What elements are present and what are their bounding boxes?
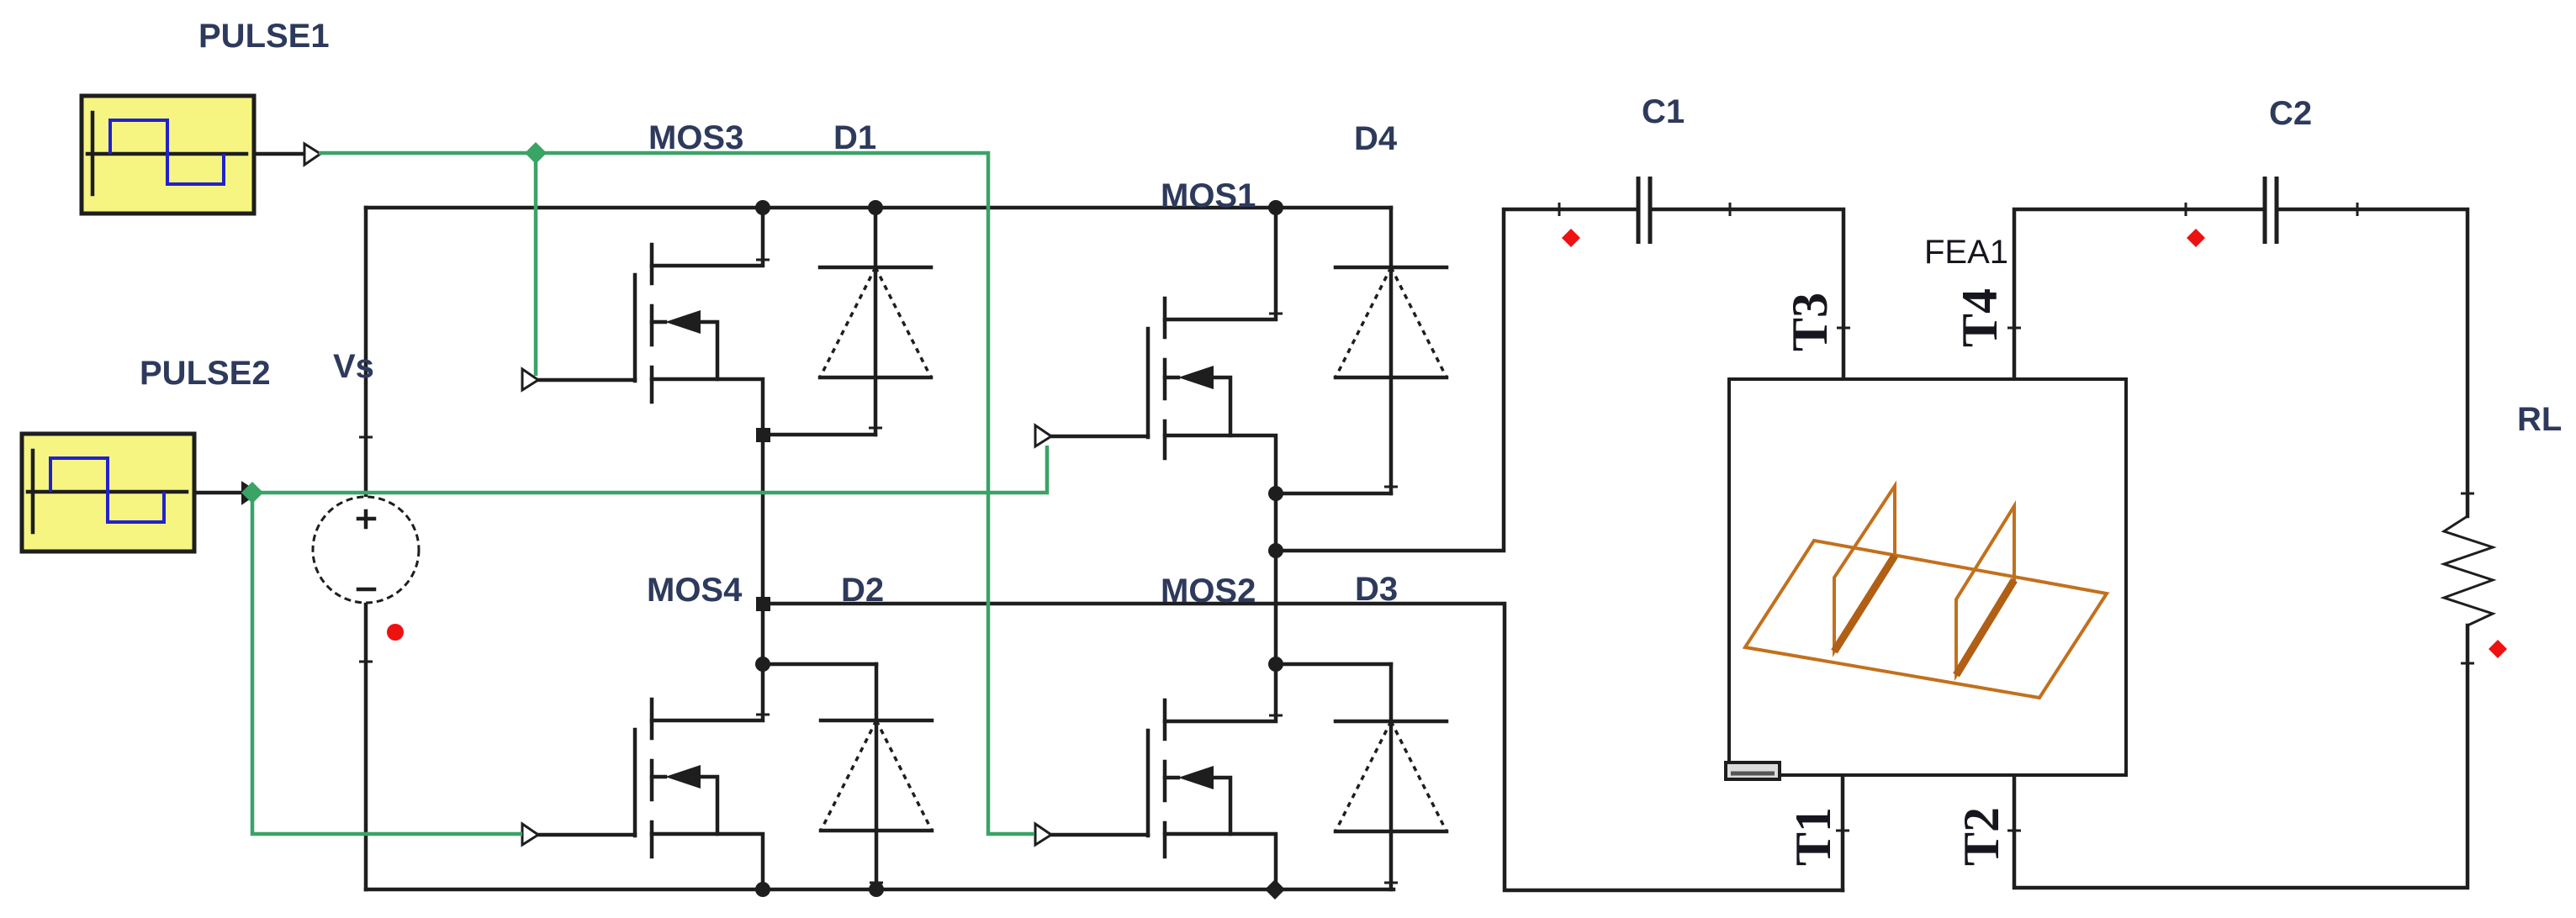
junction node on PULSE2 gate net bbox=[241, 482, 263, 504]
FEA1 block (finite-element piezo model) bbox=[1729, 379, 2126, 775]
svg-text:MOS3: MOS3 bbox=[648, 119, 743, 156]
node D2 anode on bottom rail bbox=[869, 882, 884, 897]
arrow on PULSE1 output bbox=[304, 144, 320, 165]
svg-text:RL: RL bbox=[2517, 401, 2562, 438]
svg-text:D2: D2 bbox=[841, 572, 884, 609]
diode D1 bbox=[820, 208, 931, 435]
wire left-leg midpoint vertical bbox=[761, 435, 765, 664]
svg-text:MOS2: MOS2 bbox=[1161, 572, 1256, 609]
svg-text:C1: C1 bbox=[1642, 93, 1685, 130]
diode D3 bbox=[1336, 664, 1447, 889]
svg-text:D1: D1 bbox=[833, 119, 876, 156]
transistor MOS1 (N-MOSFET) bbox=[1035, 208, 1283, 493]
wire node to D3 cathode bbox=[1276, 662, 1391, 667]
wire top DC rail bbox=[366, 206, 1391, 210]
node MOS2 drain / D3 cathode bbox=[1268, 657, 1283, 672]
wire left midpoint output to T1 bbox=[763, 604, 1843, 890]
wire gate net from PULSE1 (green) bbox=[319, 153, 1034, 834]
junction node on PULSE1 gate net bbox=[525, 142, 547, 164]
wire T4 riser to C2 bbox=[2014, 209, 2263, 379]
transistor MOS3 (N-MOSFET) bbox=[522, 208, 770, 435]
node MOS1 drain on top rail bbox=[1268, 200, 1283, 215]
wire C1 to T3 bbox=[1652, 209, 1843, 379]
FEA1 orange fin 2 bbox=[1956, 506, 2014, 675]
svg-text:C2: C2 bbox=[2269, 95, 2312, 132]
FEA1 orange base plate bbox=[1745, 541, 2107, 698]
resistor RL bbox=[2444, 516, 2493, 625]
svg-text:FEA1: FEA1 bbox=[1924, 234, 2008, 271]
voltage source Vs bbox=[313, 437, 419, 662]
svg-text:D4: D4 bbox=[1354, 120, 1398, 157]
wire T1 riser into FEA1 bbox=[1841, 775, 1845, 890]
node left midpoint to T1 bbox=[756, 597, 770, 611]
svg-text:T1: T1 bbox=[1785, 807, 1841, 866]
probe diamond near RL (red) bbox=[2489, 640, 2507, 658]
wire PULSE1 branch to MOS3 gate (green) bbox=[534, 153, 538, 376]
wire node to D1 anode bbox=[763, 433, 875, 437]
capacitor C2 bbox=[2265, 177, 2277, 244]
transistor MOS4 (N-MOSFET) bbox=[522, 664, 770, 889]
svg-text:Vs: Vs bbox=[333, 348, 374, 385]
svg-text:T2: T2 bbox=[1954, 807, 2009, 866]
node right midpoint to C1 bbox=[1268, 543, 1283, 558]
wire node to D2 cathode bbox=[763, 662, 876, 667]
FEA1 orange fin 1 bbox=[1834, 486, 1895, 652]
wire Vs top lead bbox=[364, 208, 368, 498]
wire PULSE1 output stub bbox=[254, 152, 304, 156]
wire RL bottom to T2 bbox=[2014, 625, 2468, 888]
node MOS2 source on bottom rail bbox=[1265, 879, 1285, 900]
pulse source PULSE1 (square-wave source block) bbox=[82, 96, 254, 214]
node MOS4 source on bottom rail bbox=[755, 882, 770, 897]
FEA1 version badge bbox=[1726, 762, 1780, 779]
transistor MOS2 (N-MOSFET) bbox=[1035, 664, 1283, 889]
svg-text:PULSE1: PULSE1 bbox=[198, 18, 330, 55]
probe diamond near C2 (red) bbox=[2187, 229, 2205, 247]
node MOS4 drain / D2 cathode bbox=[755, 657, 770, 672]
arrow on PULSE2 output bbox=[242, 483, 258, 504]
node MOS3 drain on top rail bbox=[755, 200, 770, 215]
svg-text:PULSE2: PULSE2 bbox=[140, 355, 271, 392]
svg-text:MOS4: MOS4 bbox=[647, 572, 743, 609]
diode D4 bbox=[1336, 208, 1447, 493]
svg-text:MOS1: MOS1 bbox=[1161, 177, 1256, 214]
svg-text:D3: D3 bbox=[1355, 571, 1398, 608]
node MOS3 source / D1 anode bbox=[756, 428, 770, 442]
wire C2 to RL top bbox=[2278, 209, 2468, 516]
diode D2 bbox=[821, 664, 932, 889]
node D1 cathode on top rail bbox=[868, 200, 883, 215]
wire bottom DC rail bbox=[366, 888, 1394, 892]
pulse source PULSE2 (square-wave source block) bbox=[22, 434, 194, 551]
svg-text:T3: T3 bbox=[1782, 293, 1838, 351]
probe dot on Vs negative lead (red) bbox=[387, 624, 404, 641]
svg-text:T4: T4 bbox=[1952, 288, 2007, 347]
probe diamond near C1 (red) bbox=[1562, 229, 1580, 247]
wire right-leg midpoint vertical bbox=[1274, 493, 1278, 664]
wire right midpoint output to C1 bbox=[1276, 209, 1637, 551]
wire D4 anode to right-leg node bbox=[1276, 492, 1391, 496]
wire Vs bottom lead bbox=[364, 602, 368, 889]
node MOS1 source / D4 anode bbox=[1268, 486, 1283, 501]
wire PULSE2 output stub bbox=[195, 491, 244, 495]
wire PULSE2 branch to MOS4 gate (green) bbox=[252, 493, 522, 834]
capacitor C1 bbox=[1638, 177, 1650, 244]
wire gate net from PULSE2 (green) bbox=[252, 446, 1047, 493]
